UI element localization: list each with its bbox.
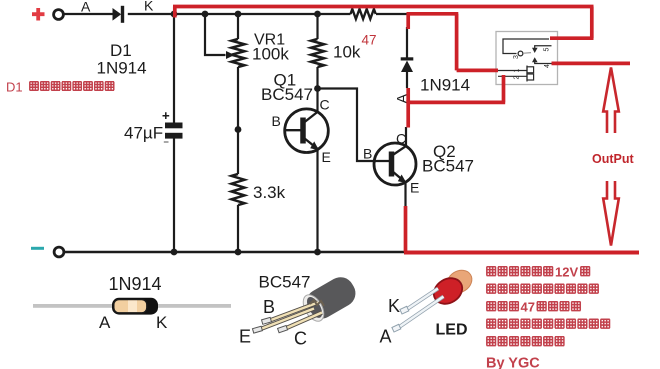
- svg-text:10k: 10k: [333, 43, 361, 62]
- photo LED dome: [443, 266, 476, 298]
- svg-text:12V: 12V: [555, 265, 578, 280]
- wire Q2 emitter: [404, 183, 406, 208]
- output arrow down: [603, 181, 619, 246]
- note line 3: [487, 302, 581, 311]
- wire collector node to Q2 base: [318, 89, 377, 162]
- red wire output top: [552, 62, 631, 66]
- relay contact 3: [518, 51, 523, 56]
- junction dots top rail: [171, 11, 178, 18]
- resistor R 47ohm: [351, 9, 376, 19]
- svg-text:D1: D1: [6, 80, 23, 95]
- svg-text:2: 2: [514, 76, 521, 80]
- potentiometer VR1 100k: [232, 39, 245, 67]
- wire top rail mid: [128, 13, 351, 15]
- flyback diode 1N914 wire top: [406, 27, 408, 58]
- junction dot collector node: [314, 85, 321, 92]
- svg-text:E: E: [239, 327, 251, 347]
- VR1 wiper wire: [205, 14, 226, 55]
- photo 1N914 body: [112, 298, 158, 315]
- red wire coil pin2 to collector: [408, 75, 505, 102]
- svg-text:OutPut: OutPut: [592, 152, 634, 166]
- transistor Q1: [285, 109, 329, 153]
- svg-text:K: K: [388, 296, 400, 316]
- svg-text:K: K: [156, 313, 168, 332]
- svg-text:A: A: [81, 0, 91, 14]
- red wire collector drop: [406, 100, 410, 128]
- output arrow up: [603, 68, 619, 134]
- red wire emitter to rail: [404, 206, 408, 252]
- bottom rail black: [64, 251, 408, 253]
- photo 1N914 lead: [33, 304, 231, 308]
- wire top rail right: [376, 13, 407, 15]
- svg-text:BC547: BC547: [259, 273, 311, 292]
- svg-text:3.3k: 3.3k: [253, 183, 286, 202]
- wire top rail left: [63, 13, 114, 15]
- svg-text:By YGC: By YGC: [486, 356, 540, 369]
- relay box: [496, 32, 558, 85]
- junction dot base node: [235, 126, 242, 133]
- svg-text:47µF: 47µF: [124, 124, 163, 143]
- capacitor C1 47uF: [165, 123, 183, 139]
- svg-text:A: A: [380, 327, 392, 347]
- svg-text:E: E: [322, 149, 331, 165]
- note line 1: [487, 267, 590, 276]
- svg-text:LED: LED: [436, 322, 468, 339]
- wire capacitor branch lower: [173, 138, 175, 252]
- flyback diode 1N914: [401, 57, 414, 72]
- red wire stub at junction: [173, 7, 177, 18]
- svg-text:3: 3: [513, 55, 520, 59]
- minus terminal mark: [31, 247, 44, 250]
- junction dots bottom rail: [171, 249, 178, 256]
- svg-text:100k: 100k: [252, 45, 289, 64]
- red wire top rail: [173, 7, 594, 39]
- relay coil: [498, 66, 534, 82]
- terminal bottom-left: [54, 247, 64, 257]
- transistor Q2: [374, 143, 416, 185]
- svg-text:E: E: [410, 180, 419, 196]
- photo LED leads: [392, 289, 444, 333]
- resistor 3.3k: [232, 174, 245, 205]
- svg-text:BC547: BC547: [261, 85, 313, 104]
- note line 2: [487, 284, 599, 293]
- red wire bottom rail: [404, 251, 639, 255]
- svg-text:5: 5: [544, 48, 551, 52]
- svg-text:B: B: [363, 146, 372, 162]
- wire 10k to collector node: [316, 67, 318, 114]
- wire VR1 to base node: [237, 67, 239, 174]
- relay contact 4 arm: [535, 62, 552, 64]
- red wire coil pin1 feed: [407, 14, 499, 71]
- note line 4: [487, 319, 610, 328]
- svg-text:C: C: [320, 97, 330, 113]
- relay internal common wire: [503, 39, 549, 54]
- flyback diode wire bottom: [406, 72, 408, 88]
- wire Q2 collector: [405, 127, 407, 147]
- svg-text:4: 4: [544, 64, 551, 68]
- photo BC547 leads: [258, 303, 322, 331]
- note line 5: [487, 337, 565, 346]
- wire 10k branch top: [316, 14, 318, 39]
- resistor 10k: [311, 39, 324, 67]
- svg-text:K: K: [144, 0, 154, 14]
- photo LED disc: [429, 273, 467, 309]
- svg-text:D1: D1: [110, 41, 132, 60]
- svg-text:BC547: BC547: [422, 157, 474, 176]
- svg-text:1N914: 1N914: [97, 59, 147, 78]
- diode D1: [113, 6, 125, 23]
- svg-text:A: A: [99, 313, 111, 332]
- svg-text:1: 1: [514, 69, 521, 73]
- wire 3.3k to rail: [237, 205, 239, 252]
- plus terminal mark: [32, 8, 45, 21]
- svg-text:47: 47: [521, 300, 535, 315]
- svg-text:B: B: [272, 113, 281, 129]
- relay contact 5 arm: [535, 46, 552, 49]
- svg-text:B: B: [263, 297, 275, 317]
- svg-text:C: C: [294, 329, 307, 349]
- svg-text:C: C: [396, 131, 406, 147]
- svg-text:47: 47: [362, 33, 377, 48]
- svg-text:1N914: 1N914: [109, 274, 162, 294]
- svg-text:1N914: 1N914: [420, 76, 470, 95]
- wire VR1 branch top: [237, 14, 239, 39]
- wire capacitor branch upper: [173, 14, 175, 123]
- terminal top-left: [54, 10, 64, 20]
- photo BC547 body: [299, 272, 361, 325]
- wire Q1 emitter to rail: [316, 150, 318, 253]
